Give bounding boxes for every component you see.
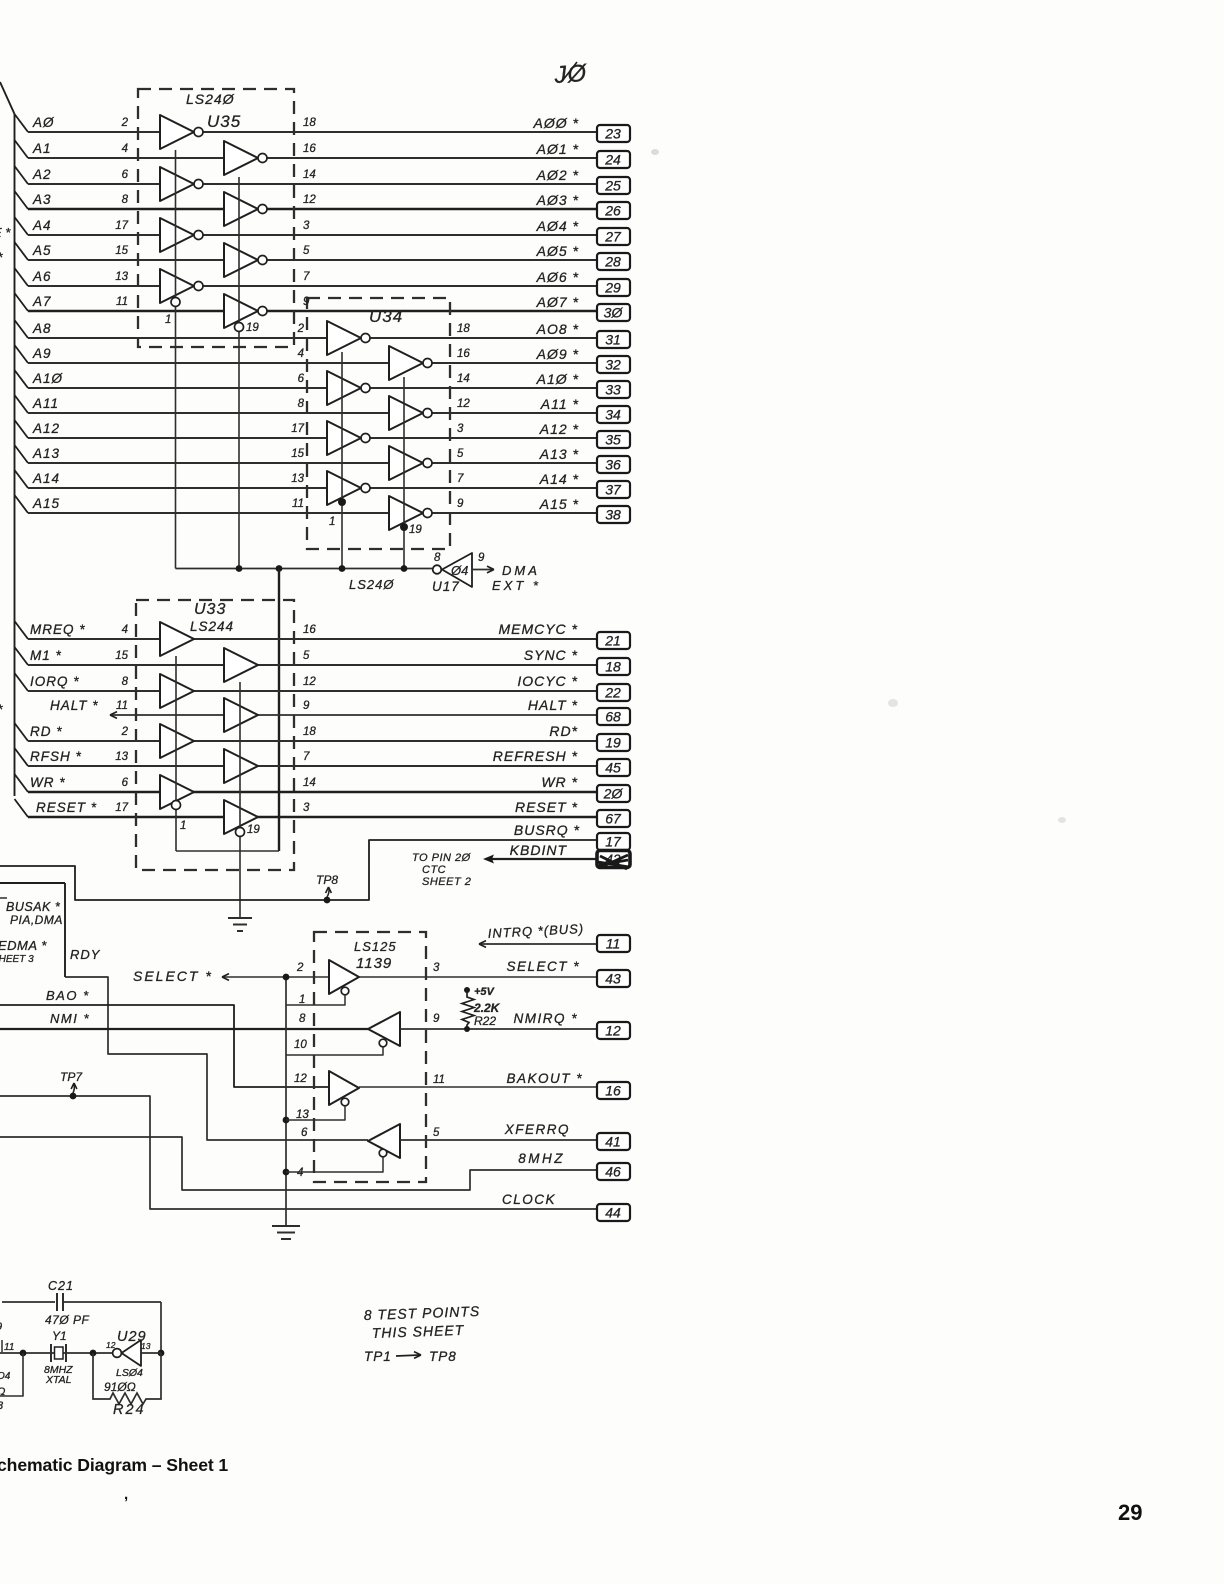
svg-text:LSØ4: LSØ4: [116, 1367, 143, 1379]
svg-text:41: 41: [605, 1134, 621, 1150]
svg-text:14: 14: [457, 373, 470, 385]
svg-text:C21: C21: [48, 1279, 74, 1293]
svg-text:45: 45: [605, 760, 621, 776]
svg-text:A6: A6: [32, 269, 52, 284]
svg-text:CLOCK: CLOCK: [502, 1192, 556, 1207]
svg-text:Y1: Y1: [52, 1329, 67, 1343]
svg-text:15: 15: [115, 245, 128, 257]
svg-text:A1Ø: A1Ø: [32, 371, 64, 386]
svg-text:SELECT *: SELECT *: [506, 959, 580, 974]
svg-text:5: 5: [457, 448, 464, 460]
svg-text:IORQ *: IORQ *: [30, 674, 80, 689]
svg-text:A1: A1: [32, 141, 52, 156]
svg-text:11: 11: [606, 936, 621, 952]
svg-text:2: 2: [297, 323, 305, 335]
svg-text:TP1: TP1: [364, 1349, 392, 1364]
svg-text:A13: A13: [32, 446, 60, 461]
svg-text:13: 13: [141, 1341, 151, 1351]
svg-text:4: 4: [122, 624, 128, 636]
svg-text:A11: A11: [32, 396, 59, 411]
svg-text:A4: A4: [32, 218, 52, 233]
svg-text:19: 19: [246, 322, 259, 334]
svg-text:E *: E *: [0, 225, 11, 240]
svg-text:TP7: TP7: [60, 1070, 83, 1084]
svg-text:9: 9: [303, 296, 310, 308]
svg-text:24: 24: [604, 152, 621, 168]
svg-text:LS244: LS244: [190, 619, 234, 634]
svg-text:31: 31: [605, 332, 621, 348]
svg-text:A8: A8: [32, 321, 52, 336]
svg-text:U17: U17: [432, 579, 460, 594]
svg-text:8: 8: [299, 1013, 306, 1025]
svg-text:17: 17: [115, 220, 128, 232]
svg-text:A7: A7: [32, 294, 52, 309]
svg-text:SHEET 2: SHEET 2: [422, 876, 471, 888]
svg-text:A2: A2: [32, 167, 52, 182]
svg-text:HALT *: HALT *: [50, 698, 99, 713]
svg-text:NMIRQ *: NMIRQ *: [514, 1011, 579, 1026]
svg-text:17: 17: [291, 423, 304, 435]
svg-text:AØ1 *: AØ1 *: [536, 141, 579, 157]
svg-text:19: 19: [409, 524, 422, 536]
svg-text:3Ø: 3Ø: [604, 305, 624, 321]
svg-text:9: 9: [433, 1013, 440, 1025]
svg-text:91ØΩ: 91ØΩ: [104, 1380, 136, 1394]
svg-text:,: ,: [124, 1486, 128, 1503]
svg-text:AØ9 *: AØ9 *: [536, 346, 579, 362]
svg-text:47Ø PF: 47Ø PF: [45, 1313, 90, 1327]
svg-text:13: 13: [296, 1109, 309, 1121]
svg-text:9: 9: [303, 700, 310, 712]
svg-text:BUSRQ *: BUSRQ *: [514, 822, 580, 838]
svg-text:5: 5: [433, 1127, 440, 1139]
svg-text:8: 8: [298, 398, 305, 410]
svg-text:U35: U35: [207, 112, 241, 131]
svg-text:RFSH *: RFSH *: [30, 749, 82, 764]
svg-text:AØ7 *: AØ7 *: [536, 294, 579, 310]
svg-text:27: 27: [604, 229, 622, 245]
svg-text:14: 14: [303, 169, 316, 181]
svg-text:THIS SHEET: THIS SHEET: [372, 1322, 465, 1341]
svg-text:18: 18: [605, 659, 621, 675]
svg-text:13: 13: [291, 473, 304, 485]
svg-text:AO8 *: AO8 *: [536, 321, 579, 337]
svg-text:16: 16: [457, 348, 470, 360]
svg-text:XTAL: XTAL: [45, 1374, 72, 1386]
svg-text:EXT *: EXT *: [492, 578, 541, 593]
svg-text:9: 9: [457, 498, 464, 510]
svg-text:RESET *: RESET *: [36, 800, 97, 815]
svg-text:Ø4: Ø4: [450, 563, 468, 578]
svg-text:chematic Diagram – Sheet 1: chematic Diagram – Sheet 1: [0, 1455, 228, 1475]
svg-text:11: 11: [433, 1074, 445, 1086]
svg-text:18: 18: [457, 323, 470, 335]
svg-text:8: 8: [122, 194, 129, 206]
svg-text:37: 37: [605, 482, 622, 498]
svg-text:NMI *: NMI *: [50, 1011, 90, 1026]
svg-text:SHEET 3: SHEET 3: [0, 954, 34, 965]
svg-text:16: 16: [303, 624, 316, 636]
svg-text:AØØ *: AØØ *: [533, 115, 579, 131]
svg-text:38: 38: [605, 507, 621, 523]
svg-text:R24: R24: [113, 1402, 146, 1418]
svg-text:46: 46: [605, 1164, 621, 1180]
svg-text:19: 19: [605, 735, 621, 751]
svg-text:LS24Ø: LS24Ø: [186, 91, 235, 107]
svg-text:DMA: DMA: [502, 563, 540, 578]
svg-text:10: 10: [294, 1039, 307, 1051]
svg-text:A5: A5: [32, 243, 52, 258]
svg-text:16: 16: [303, 143, 316, 155]
svg-text:17: 17: [115, 802, 128, 814]
svg-text:2.2K: 2.2K: [473, 1001, 501, 1015]
svg-text:26: 26: [604, 203, 621, 219]
svg-text:34: 34: [605, 407, 621, 423]
svg-text:17: 17: [605, 834, 622, 850]
svg-text:36: 36: [605, 457, 621, 473]
svg-text:AØ3 *: AØ3 *: [536, 192, 579, 208]
svg-text:1: 1: [165, 314, 171, 326]
svg-text:RD *: RD *: [30, 724, 63, 739]
svg-text:6: 6: [122, 777, 129, 789]
svg-text:3: 3: [433, 962, 440, 974]
svg-text:TP8: TP8: [316, 873, 338, 887]
svg-text:RESET *: RESET *: [515, 799, 578, 815]
svg-text:1139: 1139: [356, 955, 392, 972]
svg-text:12: 12: [457, 398, 470, 410]
svg-text:13: 13: [115, 751, 128, 763]
svg-text:BUSAK *: BUSAK *: [6, 900, 61, 914]
svg-text:LS125: LS125: [354, 939, 397, 954]
svg-text:12: 12: [605, 1023, 621, 1039]
svg-text:A3: A3: [32, 192, 52, 207]
svg-text:16: 16: [605, 1083, 621, 1099]
svg-text:11: 11: [292, 498, 304, 510]
svg-text:A12 *: A12 *: [539, 421, 579, 437]
svg-text:35: 35: [605, 432, 621, 448]
svg-text:RDY: RDY: [70, 947, 101, 962]
svg-text:A15: A15: [32, 496, 60, 511]
svg-text:29: 29: [604, 280, 621, 296]
svg-text:REFRESH *: REFRESH *: [493, 748, 578, 764]
svg-text:28: 28: [604, 254, 621, 270]
svg-text:AØ5 *: AØ5 *: [536, 243, 579, 259]
svg-text:A14 *: A14 *: [539, 471, 579, 487]
svg-text:TP8: TP8: [429, 1349, 457, 1364]
svg-text:3: 3: [457, 423, 464, 435]
svg-text:5: 5: [303, 245, 310, 257]
svg-text:2: 2: [296, 962, 304, 974]
svg-text:A15 *: A15 *: [539, 496, 579, 512]
svg-text:33: 33: [605, 382, 621, 398]
svg-text:LS24Ø: LS24Ø: [349, 577, 394, 592]
svg-text:A13 *: A13 *: [539, 446, 579, 462]
svg-text:3: 3: [303, 220, 310, 232]
svg-text:12: 12: [294, 1073, 307, 1085]
svg-text:68: 68: [605, 709, 621, 725]
svg-text:2: 2: [121, 726, 129, 738]
svg-text:25: 25: [604, 178, 621, 194]
svg-text:44: 44: [605, 1205, 621, 1221]
svg-text:11: 11: [4, 1342, 14, 1353]
svg-text:CTC: CTC: [422, 864, 446, 876]
svg-text:2Ø: 2Ø: [603, 786, 624, 802]
svg-text:15: 15: [115, 650, 128, 662]
svg-text:WR *: WR *: [30, 775, 66, 790]
svg-text:23: 23: [604, 126, 621, 142]
svg-text:12: 12: [106, 1340, 116, 1350]
svg-text:43: 43: [605, 971, 621, 987]
svg-text:AØ6 *: AØ6 *: [536, 269, 579, 285]
svg-text:PIA,DMA: PIA,DMA: [10, 913, 63, 927]
svg-text:HALT *: HALT *: [528, 697, 578, 713]
svg-text:AØ2 *: AØ2 *: [536, 167, 579, 183]
svg-text:11: 11: [116, 296, 128, 308]
svg-text:XFERRQ: XFERRQ: [504, 1122, 570, 1137]
svg-text:M1 *: M1 *: [30, 648, 62, 663]
svg-text:O4: O4: [0, 1371, 11, 1382]
svg-text:+5V: +5V: [474, 986, 496, 998]
svg-text:13: 13: [115, 271, 128, 283]
svg-text:A14: A14: [32, 471, 60, 486]
svg-text:14: 14: [303, 777, 316, 789]
svg-text:A11 *: A11 *: [540, 396, 579, 412]
svg-text:32: 32: [605, 357, 621, 373]
svg-text:21: 21: [604, 633, 621, 649]
svg-text:1: 1: [299, 994, 305, 1006]
svg-text:22: 22: [604, 685, 621, 701]
svg-text:6: 6: [298, 373, 305, 385]
svg-text:U33: U33: [194, 601, 226, 618]
svg-text:7: 7: [303, 751, 310, 763]
svg-text:9: 9: [478, 552, 485, 564]
svg-text:8: 8: [122, 676, 129, 688]
svg-text:EDMA *: EDMA *: [0, 938, 47, 953]
svg-text:A1Ø *: A1Ø *: [536, 371, 579, 387]
svg-text:12: 12: [303, 194, 316, 206]
svg-text:4: 4: [122, 143, 128, 155]
svg-text:4: 4: [298, 348, 304, 360]
svg-text:7: 7: [457, 473, 464, 485]
svg-text:A12: A12: [32, 421, 60, 436]
svg-text:6: 6: [301, 1127, 308, 1139]
svg-text:9: 9: [0, 1321, 2, 1333]
svg-text:BAO *: BAO *: [46, 988, 90, 1003]
svg-text:12: 12: [303, 676, 316, 688]
svg-text:1: 1: [180, 820, 186, 832]
svg-text:AØ4 *: AØ4 *: [536, 218, 579, 234]
svg-text:MEMCYC *: MEMCYC *: [498, 621, 578, 637]
svg-text:KBDINT: KBDINT: [510, 842, 568, 858]
svg-text:WR *: WR *: [541, 774, 578, 790]
svg-text:A9: A9: [32, 346, 52, 361]
svg-text:19: 19: [247, 824, 260, 836]
svg-text:67: 67: [605, 811, 622, 827]
svg-text:8MHZ: 8MHZ: [518, 1151, 565, 1166]
svg-text:JØ: JØ: [553, 60, 589, 89]
svg-text:U34: U34: [369, 307, 403, 326]
svg-text:SELECT *: SELECT *: [133, 968, 213, 984]
svg-text:6: 6: [122, 169, 129, 181]
svg-text:29: 29: [1118, 1500, 1142, 1525]
svg-text:Ω: Ω: [0, 1386, 5, 1398]
svg-text:2: 2: [121, 117, 129, 129]
svg-text:18: 18: [303, 117, 316, 129]
svg-text:1: 1: [329, 516, 335, 528]
svg-text:R22: R22: [474, 1014, 496, 1028]
svg-text:3: 3: [303, 802, 310, 814]
svg-text:AØ: AØ: [32, 115, 55, 130]
svg-text:4: 4: [297, 1167, 303, 1179]
svg-text:TO PIN 2Ø: TO PIN 2Ø: [412, 852, 472, 864]
svg-text:8: 8: [434, 552, 441, 564]
svg-text:11: 11: [116, 700, 128, 712]
svg-text:RD*: RD*: [549, 723, 578, 739]
svg-text:18: 18: [303, 726, 316, 738]
svg-text:7: 7: [303, 271, 310, 283]
svg-text:IOCYC *: IOCYC *: [517, 673, 578, 689]
svg-text:5: 5: [303, 650, 310, 662]
svg-text:MREQ *: MREQ *: [30, 622, 86, 637]
svg-text:15: 15: [291, 448, 304, 460]
svg-text:BAKOUT *: BAKOUT *: [506, 1071, 583, 1086]
svg-text:SYNC *: SYNC *: [524, 647, 578, 663]
